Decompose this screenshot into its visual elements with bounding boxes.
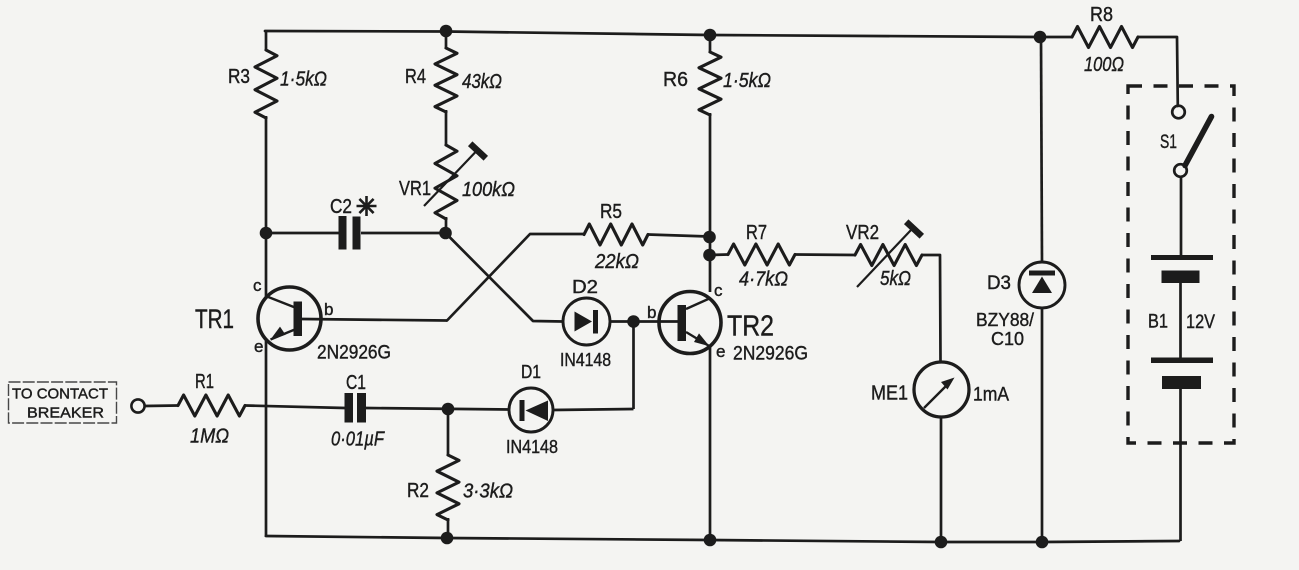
wire ME1 down to ground rail [940,417,943,542]
capacitor C1 [331,372,385,451]
svg-text:S1: S1 [1160,132,1177,153]
wire crossover down-diagonal to D2 [446,233,564,322]
wire R4 top lead [445,31,448,49]
svg-text:D3: D3 [987,273,1011,294]
wire TR1 emitter down to ground rail [265,339,268,537]
diode D1 [506,362,558,457]
wire TR2 emitter down to ground rail [709,346,712,540]
svg-text:R7: R7 [746,222,767,244]
svg-text:1mA: 1mA [973,385,1009,406]
svg-text:3·3kΩ: 3·3kΩ [463,481,513,503]
svg-text:TR2: TR2 [727,311,774,343]
node R6 top junction [704,29,717,42]
svg-text:R4: R4 [405,66,426,88]
resistor R1 [178,371,245,448]
svg-text:100Ω: 100Ω [1084,54,1124,76]
svg-text:VR2: VR2 [846,222,879,244]
wire R8 output down to switch S1 [1138,37,1178,106]
node R7 junction [703,249,716,262]
svg-text:e: e [254,337,263,356]
svg-text:TR1: TR1 [195,304,234,334]
battery B1 cell 1 short plate [1162,271,1200,284]
svg-text:R8: R8 [1090,4,1113,26]
wire top supply rail [265,31,1072,37]
svg-text:C1: C1 [346,372,366,394]
node D3 ground junction [1036,536,1049,549]
svg-text:2N2926G: 2N2926G [317,343,391,364]
svg-text:b: b [324,300,333,319]
resistor R6 [663,52,771,115]
svg-text:1MΩ: 1MΩ [190,426,229,448]
svg-text:TO CONTACT: TO CONTACT [12,387,108,403]
wire D2 to TR2 base [610,320,678,323]
svg-text:4·7kΩ: 4·7kΩ [739,269,788,291]
wire D1 to TR2 base node [553,409,634,410]
node R2 ground junction [441,532,454,545]
wire C1 to D1 [366,408,510,410]
svg-text:100kΩ: 100kΩ [462,179,515,201]
svg-text:R3: R3 [228,66,250,88]
wire R2 to ground rail [447,518,450,538]
node ME1 ground junction [935,536,948,549]
input terminal circle [131,399,144,412]
node R5 junction [703,231,716,244]
wire left column top [265,30,268,51]
svg-text:BZY88/: BZY88/ [976,310,1034,330]
svg-text:b: b [647,303,656,322]
zener diode D3 [976,262,1065,349]
svg-text:IN4148: IN4148 [506,437,558,457]
svg-text:R5: R5 [600,201,622,223]
resistor R2 [407,455,513,520]
node VR1 bottom junction [439,227,452,240]
wire R6 top lead [709,35,712,53]
svg-text:43kΩ: 43kΩ [462,71,502,93]
wire C2 right [361,232,440,235]
svg-text:ME1: ME1 [871,383,908,405]
svg-text:IN4148: IN4148 [560,350,611,370]
svg-text:e: e [716,342,725,361]
asterisk select-on-test mark for C2 [357,196,377,216]
wire TR2 base node down to D1 [632,322,635,410]
wire between battery cells [1179,283,1182,358]
capacitor C2 [330,196,361,250]
resistor R7 [728,222,795,291]
svg-text:5kΩ: 5kΩ [880,268,911,290]
potentiometer VR2 [846,222,922,290]
wire junction down to R2 [447,409,450,456]
svg-text:D1: D1 [521,362,541,382]
diode D2 [560,277,611,370]
node D3 top junction [1034,31,1047,44]
switch S1 [1160,106,1212,177]
wire crossover up-diagonal to R5 [447,234,584,321]
svg-text:0·01µF: 0·01µF [331,429,385,451]
battery B1 cell 2 long plate [1151,358,1213,364]
wire R1 to C1 [245,406,345,409]
wire R4 to VR1 [445,110,448,146]
battery labels [1148,312,1215,334]
wire battery to ground rail [1179,389,1182,541]
svg-text:c: c [714,281,723,300]
svg-text:B1: B1 [1148,312,1168,333]
svg-text:1·5kΩ: 1·5kΩ [280,69,327,91]
wire terminal to R1 [145,404,179,407]
resistor R3 [228,50,327,118]
node TR2 ground junction [704,534,717,547]
wire S1 to battery B1 [1180,177,1183,256]
svg-text:12V: 12V [1186,312,1215,333]
svg-text:C10: C10 [991,329,1024,349]
meter ME1 [871,362,1009,417]
node TR2 base junction [627,315,640,328]
battery B1 cell 2 short plate [1162,376,1201,389]
potentiometer VR1 [399,144,515,229]
wire C2 left [271,232,339,235]
wire VR2 to ME1 [922,255,941,362]
transistor TR2 [647,281,808,365]
node R4 top junction [440,25,453,38]
wire R6 down to TR2 collector [709,113,712,292]
wire bottom ground rail [266,536,1179,542]
resistor R8 [1072,4,1138,76]
svg-text:R6: R6 [663,69,688,91]
svg-text:BREAKER: BREAKER [27,406,104,422]
svg-text:R2: R2 [407,480,429,502]
wire R5 to TR2 collector node [648,235,709,237]
svg-text:2N2926G: 2N2926G [733,344,808,365]
dashed enclosure box [1128,86,1234,443]
transistor TR1 [195,276,391,364]
svg-text:D2: D2 [572,277,598,297]
svg-text:22kΩ: 22kΩ [594,251,639,273]
svg-text:R1: R1 [195,371,214,393]
resistor R5 [584,201,648,273]
wire R7 to VR2 [795,253,856,256]
node C1/R2/D1 junction [442,403,455,416]
wire R3 to TR1 collector [265,116,268,298]
wire top rail down to D3 [1041,37,1042,263]
label box TO CONTACT BREAKER [9,382,117,423]
svg-text:C2: C2 [330,196,352,218]
node C2 left junction [260,227,273,240]
wire TR1 base to crossover [302,319,447,321]
svg-text:VR1: VR1 [399,178,431,200]
resistor R4 [405,48,502,112]
wire D3 down to ground rail [1041,307,1044,542]
battery B1 cell 1 long plate [1151,255,1213,260]
svg-text:c: c [253,276,262,295]
svg-text:1·5kΩ: 1·5kΩ [723,70,771,92]
wire R7 left lead [710,253,729,256]
